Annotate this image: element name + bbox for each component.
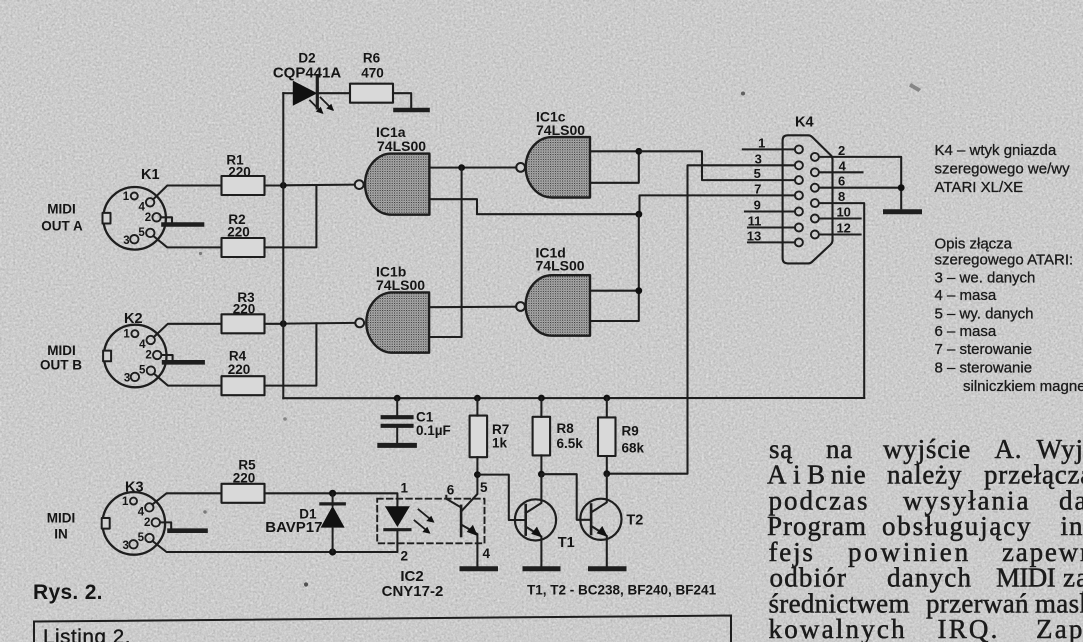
K1 pin 4 — [146, 198, 154, 206]
ground (R6) — [396, 108, 428, 113]
wire node A to IC1a output bubble — [283, 184, 354, 187]
svg-text:7 – sterowanie: 7 – sterowanie — [935, 341, 1033, 358]
resistor R6 470 — [350, 84, 393, 103]
wire K2 pin5 to R4 — [154, 374, 222, 386]
K3 pin 3 — [129, 540, 137, 548]
node A (R1/IC1a junction) — [280, 182, 287, 189]
K4 pin 8 — [811, 199, 819, 207]
K2 pin 2 — [153, 351, 161, 359]
node B (R3/IC1b junction) — [280, 320, 287, 327]
transistor T2 (BF240) — [580, 499, 621, 540]
svg-text:6: 6 — [838, 174, 845, 189]
svg-text:74LS00: 74LS00 — [376, 277, 425, 293]
svg-text:R9: R9 — [622, 424, 639, 439]
node rail/R7 — [474, 395, 481, 402]
wire IC1c lower input tie — [590, 151, 639, 183]
svg-text:1k: 1k — [492, 436, 508, 451]
IC2 emitter arrowhead — [467, 525, 478, 536]
vertical trunk node A to D2 and to supply rail — [282, 93, 284, 398]
svg-text:11: 11 — [748, 214, 762, 229]
svg-text:8 – sterowanie: 8 – sterowanie — [935, 360, 1033, 377]
supply rail — [283, 397, 864, 399]
wire vertical tie to IC1b lower input — [429, 168, 462, 337]
wire R3 to node B — [265, 323, 284, 325]
wire trunk top to D2 anode — [283, 92, 293, 94]
svg-text:D2: D2 — [298, 51, 315, 66]
resistor R1 220 — [222, 176, 265, 195]
svg-text:K4: K4 — [795, 115, 814, 131]
IC2 phototransistor base bar — [460, 506, 463, 536]
svg-text:K3: K3 — [125, 480, 144, 496]
node rail/R9 — [603, 395, 610, 402]
svg-text:5: 5 — [139, 365, 146, 377]
svg-text:3: 3 — [122, 540, 128, 552]
svg-text:13: 13 — [747, 228, 761, 243]
K3 pin 1 — [130, 498, 137, 505]
svg-text:OUT B: OUT B — [40, 358, 82, 373]
node D1 bottom junction — [329, 548, 336, 555]
K4 pin 3 — [795, 161, 803, 169]
ground (K2 pin 2) — [164, 360, 203, 365]
svg-text:220: 220 — [233, 302, 256, 317]
K1 pin 5 — [146, 229, 154, 237]
T2 emitter arrowhead — [597, 526, 608, 537]
wire K4 pin11 stub — [748, 226, 795, 228]
node C — [636, 211, 643, 218]
node K4 ground — [898, 184, 905, 191]
K4 pin 1 — [795, 145, 803, 153]
node IC1a-input / IC1b tie — [458, 164, 465, 171]
IC2 pin 6 stub — [446, 496, 461, 508]
svg-text:0.1µF: 0.1µF — [416, 423, 451, 438]
svg-text:74LS00: 74LS00 — [536, 122, 585, 138]
svg-text:3 – we. danych: 3 – we. danych — [935, 270, 1036, 287]
svg-text:1: 1 — [123, 191, 130, 203]
svg-text:1: 1 — [758, 135, 765, 150]
wire K4 pin3 run down to R9/T2 node — [607, 165, 795, 473]
wire node D1 bottom to IC2 pin 2 — [333, 530, 398, 552]
svg-text:BAVP17: BAVP17 — [265, 519, 322, 536]
wire IC1a lower input to node C — [429, 199, 638, 214]
IC2 LED cathode bar — [385, 528, 410, 531]
wire R1 to node A — [265, 184, 284, 186]
wire K3 pin4 to R5 — [152, 493, 221, 504]
T1 collector — [526, 474, 542, 513]
svg-text:K2: K2 — [124, 311, 143, 327]
NAND gate IC1c 74LS00 (mirrored) — [526, 137, 590, 197]
svg-text:R8: R8 — [557, 421, 575, 436]
K3 pin 5 — [145, 534, 153, 542]
svg-text:CQP441A: CQP441A — [273, 65, 342, 82]
svg-text:2: 2 — [145, 350, 151, 362]
svg-text:2: 2 — [401, 549, 409, 564]
svg-text:MIDI: MIDI — [47, 202, 76, 217]
svg-text:5: 5 — [480, 480, 488, 495]
wire K3 pin5 to IC2 LED cathode line — [153, 541, 333, 552]
svg-text:6 – masa: 6 – masa — [935, 323, 997, 340]
IC2 light arrows — [415, 510, 435, 534]
wire K4 pin2 to ground — [819, 157, 901, 208]
wire K4 pin4 stub — [819, 171, 862, 173]
diode D1 BAVP17 (anti-parallel) — [321, 506, 345, 528]
T1 emitter — [526, 527, 542, 567]
svg-text:220: 220 — [228, 165, 251, 180]
svg-text:74LS00: 74LS00 — [536, 258, 585, 274]
wire R5 to node D1 top — [265, 492, 333, 494]
D2 light arrows — [310, 98, 334, 115]
wire K4 pin5 run — [639, 151, 795, 180]
connector K3 (MIDI IN, DIN-5) — [103, 492, 166, 555]
capacitor C1 0.1uF — [396, 398, 398, 415]
svg-text:220: 220 — [228, 362, 251, 377]
wire K4 pin1 stub — [743, 148, 795, 150]
ground (IC2 pin 4) — [462, 566, 496, 571]
node D1 top junction — [329, 490, 336, 497]
svg-text:1: 1 — [401, 481, 409, 496]
T2 emitter — [591, 526, 607, 566]
wire node R7 to T1 base — [477, 475, 525, 520]
svg-text:2: 2 — [144, 517, 150, 529]
svg-text:2: 2 — [838, 143, 845, 158]
K4 pin 11 — [795, 224, 803, 232]
svg-text:4: 4 — [483, 546, 491, 561]
svg-text:4: 4 — [839, 158, 847, 173]
wire K3 pin2 to ground — [160, 522, 171, 528]
svg-text:68k: 68k — [622, 441, 645, 456]
svg-text:R6: R6 — [363, 51, 381, 66]
K4 pin 6 — [811, 184, 819, 192]
wire K4 pin9 stub — [745, 210, 795, 212]
K4 pin 4 — [811, 168, 819, 176]
svg-text:ATARI XL/XE: ATARI XL/XE — [935, 179, 1024, 196]
wire node R8 to T2 base — [541, 474, 591, 520]
IC2 phototransistor collector to pin 5 — [461, 475, 477, 512]
K4 pin 12 — [811, 231, 819, 239]
svg-text:1: 1 — [122, 496, 129, 508]
K2 pin 4 — [147, 336, 155, 344]
NAND gate IC1a 74LS00 (mirrored) — [365, 154, 429, 215]
resistor R9 68k — [598, 417, 616, 456]
node R7/IC2 pin5 — [474, 471, 481, 478]
wire R2 up to IC1a output line — [265, 185, 317, 247]
wire K2 pin2 to ground — [161, 355, 172, 360]
optocoupler IC2 CNY17-2 dashed body — [377, 499, 484, 544]
svg-text:T1, T2 - BC238, BF240, BF241: T1, T2 - BC238, BF240, BF241 — [527, 583, 717, 598]
IC2 internal LED — [385, 506, 410, 527]
wire K4 pin6 to ground node — [819, 187, 901, 189]
ground (K1 pin 2) — [164, 222, 203, 227]
svg-text:220: 220 — [227, 225, 250, 240]
IC1c output bubble — [516, 163, 525, 172]
K4 pin 9 — [795, 208, 803, 216]
svg-text:9: 9 — [754, 198, 761, 213]
IC2 phototransistor emitter to pin 4 — [461, 525, 477, 567]
resistor R7 1k — [470, 416, 488, 458]
wire K1 pin5 to R2 — [153, 236, 221, 247]
K2 pin 1 — [131, 330, 138, 337]
svg-text:3: 3 — [123, 235, 129, 247]
svg-text:10: 10 — [836, 205, 850, 220]
ground (T2) — [591, 566, 625, 571]
ground (T1) — [525, 566, 558, 571]
wire IC1c upper input to pin5 line — [590, 150, 639, 152]
svg-text:470: 470 — [361, 66, 384, 81]
svg-text:silniczkiem magnetofonu: silniczkiem magnetofonu — [963, 378, 1083, 395]
K3 pin 2 — [152, 518, 160, 526]
T1 emitter arrowhead — [531, 527, 542, 538]
svg-text:IN: IN — [54, 527, 68, 542]
svg-text:K4 – wtyk gniazda: K4 – wtyk gniazda — [935, 142, 1057, 159]
wire K1 pin2 to ground — [161, 217, 172, 222]
paper scan artifacts — [199, 83, 921, 587]
node R9/T2 collector — [603, 470, 610, 477]
svg-text:5: 5 — [138, 227, 145, 239]
svg-text:szeregowego ATARI:: szeregowego ATARI: — [935, 252, 1074, 269]
svg-text:MIDI: MIDI — [47, 343, 76, 358]
K4 pin 2 — [811, 153, 819, 161]
resistor R4 220 — [222, 376, 265, 395]
K3 pin 4 — [145, 503, 153, 511]
wire R4 up to IC1b output line — [265, 323, 317, 385]
svg-text:Opis złącza: Opis złącza — [935, 236, 1013, 253]
ground (K3 pin 2) — [170, 528, 206, 533]
K1 key notch — [103, 213, 111, 224]
IC1b output bubble — [355, 319, 364, 328]
wire K1 pin4 to R1 — [153, 186, 221, 200]
ground (C1) — [380, 443, 415, 448]
Listing 2. box — [34, 616, 731, 642]
K4 pin 13 — [795, 238, 803, 246]
wire K2 pin4 to R3 — [154, 324, 222, 337]
K4 pin 7 — [795, 191, 803, 199]
resistor R5 220 — [222, 484, 265, 503]
wire node B to IC1b output bubble — [283, 322, 355, 325]
wire IC1d upper input — [590, 290, 639, 292]
svg-text:T2: T2 — [626, 513, 643, 529]
svg-text:Listing 2,: Listing 2, — [43, 626, 131, 642]
svg-text:5: 5 — [754, 166, 761, 181]
wire K4 pin8 down to supply rail — [819, 203, 864, 398]
wire K4 pin10 stub — [819, 217, 861, 219]
svg-text:5: 5 — [138, 532, 145, 544]
svg-text:8: 8 — [838, 189, 845, 204]
IC1d output bubble — [516, 302, 525, 311]
T1 base bar — [524, 505, 527, 534]
svg-text:4 – masa: 4 – masa — [935, 287, 997, 304]
svg-text:CNY17-2: CNY17-2 — [382, 583, 444, 600]
svg-text:6.5k: 6.5k — [557, 436, 584, 451]
K1 pin 3 — [130, 235, 138, 243]
resistor R3 220 — [222, 314, 265, 333]
svg-text:220: 220 — [233, 471, 256, 486]
wire K4 pin7 run down to node C — [640, 195, 795, 214]
K2 key notch — [103, 351, 111, 362]
K2 pin 5 — [147, 366, 155, 374]
svg-text:Rys. 2.: Rys. 2. — [33, 581, 103, 604]
D2 cathode bar — [316, 77, 319, 108]
svg-text:3: 3 — [124, 373, 130, 385]
wire D2 to R6 — [317, 92, 350, 94]
node R8/T1 collector — [538, 471, 545, 478]
wire node D1 top to IC2 pin 1 — [333, 493, 398, 506]
resistor R8 6.5k — [533, 417, 551, 456]
svg-text:szeregowego we/wy: szeregowego we/wy — [935, 161, 1071, 178]
node IC1d upper input — [635, 287, 642, 294]
wire K4 pin13 stub — [748, 241, 795, 243]
wire IC1c output to IC1a input — [429, 166, 516, 168]
T2 base bar — [590, 505, 593, 535]
node rail/C1 — [394, 395, 401, 402]
resistor R2 220 — [222, 238, 265, 257]
transistor T1 (BC238) — [515, 499, 556, 540]
connector K4 (Atari SIO plug) — [783, 135, 833, 263]
svg-text:6: 6 — [447, 483, 455, 498]
svg-text:2: 2 — [145, 212, 151, 224]
wire K4 pin12 stub — [819, 233, 861, 235]
NAND gate IC1d 74LS00 (mirrored) — [526, 275, 590, 336]
svg-text:OUT A: OUT A — [41, 219, 83, 234]
K3 key notch — [102, 518, 110, 529]
K1 pin 2 — [152, 213, 160, 221]
wire R6 to ground — [393, 93, 411, 107]
svg-text:T1: T1 — [558, 535, 575, 551]
IC1a output bubble — [355, 180, 364, 189]
svg-text:3: 3 — [755, 151, 762, 166]
svg-text:K1: K1 — [141, 167, 160, 183]
wire IC1d output to IC1b upper input — [429, 306, 516, 309]
ground (K4 pins 2/6) — [886, 209, 920, 214]
node trunk top (pin5/IC1c) — [635, 148, 642, 155]
connector K2 (MIDI OUT B, DIN-5) — [104, 325, 167, 388]
svg-text:12: 12 — [836, 221, 850, 236]
svg-text:7: 7 — [754, 181, 761, 196]
svg-text:1: 1 — [123, 329, 130, 341]
K1 pin 1 — [131, 193, 138, 200]
K4 pin 5 — [795, 176, 803, 184]
LED D2 CQP441A — [293, 81, 318, 106]
svg-text:MIDI: MIDI — [47, 511, 76, 526]
T2 collector — [591, 474, 607, 513]
node rail/R8 — [538, 395, 545, 402]
K4 pin 10 — [811, 215, 819, 223]
svg-text:5 – wy. danych: 5 – wy. danych — [935, 306, 1034, 323]
NAND gate IC1b 74LS00 (mirrored) — [366, 292, 429, 352]
connector K1 (MIDI OUT A, DIN-5) — [103, 187, 166, 250]
K2 pin 3 — [131, 373, 139, 381]
trunk node C to IC1d lower input — [590, 214, 639, 321]
svg-text:74LS00: 74LS00 — [377, 138, 426, 154]
